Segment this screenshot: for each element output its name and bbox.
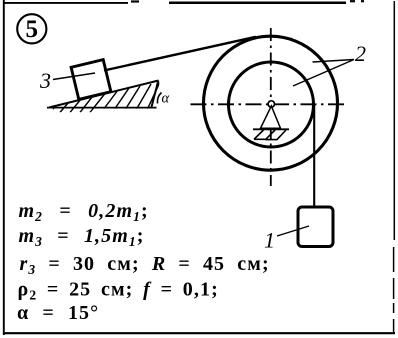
svg-text:ρ2 = 25 см; f = 0,1;: ρ2 = 25 см; f = 0,1;	[18, 279, 219, 303]
svg-text:3: 3	[39, 68, 51, 93]
svg-text:α = 15°: α = 15°	[17, 302, 99, 324]
svg-text:r3 = 30 см; R = 45 см;: r3 = 30 см; R = 45 см;	[20, 253, 270, 277]
svg-text:5: 5	[26, 16, 39, 43]
svg-text:m3 = 1,5m1;: m3 = 1,5m1;	[19, 225, 145, 249]
svg-text:2: 2	[355, 41, 366, 66]
svg-text:1: 1	[264, 228, 275, 253]
svg-text:m2 = 0,2m1;: m2 = 0,2m1;	[19, 200, 149, 224]
svg-text:α: α	[162, 91, 170, 107]
